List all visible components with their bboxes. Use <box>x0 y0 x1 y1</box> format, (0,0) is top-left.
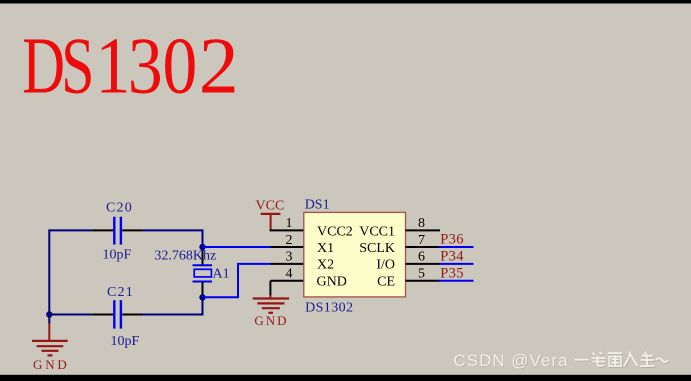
svg-text:GND: GND <box>317 275 347 290</box>
pin 1 wire <box>270 229 305 231</box>
watermark CSDN @Vera <box>454 351 570 371</box>
svg-text:A1: A1 <box>213 266 230 281</box>
title DS1302 <box>22 22 239 111</box>
pin 3 wire <box>271 263 305 265</box>
wire C20 row left (navy) <box>49 229 91 231</box>
svg-text:VCC2: VCC2 <box>317 225 353 240</box>
wire C20 row right (navy) <box>142 229 204 231</box>
svg-text:8: 8 <box>418 216 425 231</box>
svg-text:5: 5 <box>418 267 425 282</box>
junction dot X2 <box>199 294 205 300</box>
wire GND drop (navy) <box>48 315 50 325</box>
wire right vertical lower (navy) <box>202 296 204 315</box>
pin 6 wire <box>406 263 441 265</box>
svg-text:DS1: DS1 <box>305 197 330 212</box>
wire X1 (bright blue) <box>203 246 271 248</box>
svg-text:CE: CE <box>377 275 395 290</box>
wire left vertical (navy) <box>48 229 50 315</box>
crystal A1 <box>193 253 213 297</box>
svg-text:C20: C20 <box>106 201 133 216</box>
svg-text:3: 3 <box>128 22 163 111</box>
svg-text:GND: GND <box>33 357 70 372</box>
IC DS1 (DS1302) body <box>304 212 406 297</box>
power VCC <box>261 214 281 231</box>
capacitor C21 <box>91 300 142 328</box>
svg-text:CSDN @Vera: CSDN @Vera <box>454 351 569 370</box>
svg-text:VCC: VCC <box>256 198 285 213</box>
svg-text:S: S <box>61 23 94 111</box>
watermark CJK 一笔画人生~ <box>575 352 669 367</box>
top border bar <box>0 0 691 4</box>
svg-text:10pF: 10pF <box>111 334 140 349</box>
wire crystal bottom stub (navy) <box>202 295 204 299</box>
ground symbol left <box>32 323 68 355</box>
bottom border bar <box>0 375 691 381</box>
net stub P35 <box>439 280 474 282</box>
wire C21 row left (navy) <box>49 314 91 316</box>
svg-text:I/O: I/O <box>376 258 395 273</box>
junction dot GND left <box>46 311 52 317</box>
pin 2 wire <box>271 246 305 248</box>
wire C21 row right (navy) <box>142 314 204 316</box>
pin 8 wire <box>406 229 441 231</box>
svg-text:SCLK: SCLK <box>359 241 395 256</box>
capacitor C20 <box>91 217 142 245</box>
wire right vertical upper (navy) <box>202 229 204 248</box>
svg-text:1: 1 <box>286 216 293 231</box>
svg-text:C21: C21 <box>107 285 134 300</box>
svg-text:X2: X2 <box>317 258 334 273</box>
pin 4 wire <box>270 280 304 282</box>
ground symbol mid (pin 4) <box>253 281 289 313</box>
svg-text:6: 6 <box>418 250 425 265</box>
wire crystal top stub (navy) <box>202 246 204 254</box>
pin 5 wire <box>406 280 441 282</box>
svg-text:32.768Khz: 32.768Khz <box>154 249 216 264</box>
svg-text:10pF: 10pF <box>103 248 132 263</box>
svg-text:P35: P35 <box>440 266 463 282</box>
svg-text:P34: P34 <box>440 249 464 265</box>
svg-text:D: D <box>22 22 65 111</box>
svg-text:7: 7 <box>418 233 425 248</box>
net stub P36 <box>439 246 474 248</box>
svg-text:2: 2 <box>199 23 239 111</box>
junction dot X1 <box>199 244 205 250</box>
svg-text:VCC1: VCC1 <box>359 225 395 240</box>
svg-text:4: 4 <box>286 267 293 282</box>
svg-text:1: 1 <box>95 23 130 111</box>
net stub P34 <box>439 263 474 265</box>
svg-text:2: 2 <box>286 233 293 248</box>
wire X2 (bright blue) <box>203 264 271 297</box>
pin 7 wire <box>406 246 441 248</box>
svg-text:X1: X1 <box>317 241 334 256</box>
svg-text:GND: GND <box>254 313 288 328</box>
svg-text:0: 0 <box>163 22 198 111</box>
svg-text:DS1302: DS1302 <box>305 300 353 315</box>
svg-text:P36: P36 <box>440 232 463 248</box>
svg-text:3: 3 <box>286 250 293 265</box>
